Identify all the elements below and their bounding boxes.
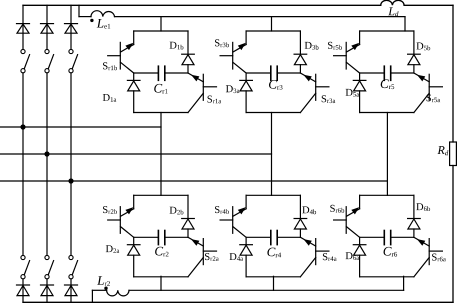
wire cell 1 top rail — [134, 30, 188, 32]
wire cell 4 top rail to diode D_4b — [299, 195, 301, 218]
transistor S_r5b base lead — [334, 55, 347, 57]
diode D_6a cathode bar — [353, 244, 366, 246]
wire diode D_4b to node — [299, 229, 301, 237]
wire bottom return rise into cell 6 — [403, 276, 405, 290]
switch Sb bottom circle — [45, 255, 49, 259]
diode input rectifier top phase c cathode bar — [65, 23, 78, 25]
wire cell 3 top rail to diode D_3b — [299, 31, 301, 54]
transistor S_r6b bar — [345, 207, 347, 234]
transistor S_r3b corner drop — [245, 31, 247, 45]
wire bottom return left stub — [92, 289, 106, 291]
wire diode D_1b to node — [187, 65, 189, 73]
transistor S_r6b base lead — [334, 219, 347, 221]
transistor S_r6a base lead — [429, 250, 442, 252]
capacitor C_r1 left plate — [157, 66, 159, 80]
transistor S_r3b arrow — [238, 43, 246, 50]
label D_1b — [170, 42, 184, 50]
label S_r2b — [103, 206, 117, 214]
transistor S_r1b bar — [119, 42, 121, 69]
wire stub top of cell 3 — [271, 17, 273, 31]
wire capacitor right plate to cell 2 node — [165, 236, 188, 238]
label D_5b — [416, 43, 430, 51]
label S_r6b — [330, 205, 344, 213]
transistor S_r1b emitter diagonal — [121, 62, 134, 73]
wire capacitor right plate to cell 1 node — [165, 72, 188, 74]
label S_r1b — [103, 62, 117, 70]
wire cell 5 node to diode D_5a — [359, 73, 361, 80]
wire phase b upper segment — [46, 5, 48, 49]
switch Sc bottom circle — [69, 255, 73, 259]
label D_1a — [103, 94, 117, 102]
transistor S_r1b collector diagonal — [121, 45, 134, 53]
transistor S_r3b bar — [232, 42, 234, 69]
wire cell 1 top rail to diode D_1b — [187, 31, 189, 54]
wire diode D_3b to node — [299, 65, 301, 73]
capacitor C_r2 right plate — [164, 231, 166, 245]
wire cell 1 bottom rail — [134, 112, 188, 114]
wire stub bottom of cell 4 — [273, 276, 275, 290]
inductor Lr2 — [107, 290, 129, 296]
transistor S_r3a collector diagonal — [300, 73, 315, 82]
wire diode D_2a to bottom rail — [133, 255, 135, 277]
resistor Rd — [450, 142, 457, 166]
wire cell 1 node to capacitor left plate — [134, 72, 159, 74]
capacitor C_r1 right plate — [164, 66, 166, 80]
wire diode D_2b to node — [187, 229, 189, 237]
capacitor C_r2 left plate — [157, 231, 159, 245]
transistor S_r2a base lead — [203, 250, 216, 252]
transistor S_r4a arrow — [303, 239, 311, 246]
transistor S_r5b bar — [345, 42, 347, 69]
transistor S_r1b base lead — [108, 55, 121, 57]
label D_4b — [302, 206, 316, 214]
diode D_4a cathode bar — [240, 244, 253, 246]
diode D_1b cathode bar — [182, 53, 195, 55]
transistor S_r3b emitter diagonal — [233, 62, 246, 73]
diode D_5a cathode bar — [353, 79, 366, 81]
wire link cell 3 to cell 4 (phase b node) — [271, 113, 273, 196]
transistor S_r4b emitter diagonal — [233, 227, 246, 238]
wire link cell 1 to cell 2 (phase a node) — [160, 113, 162, 196]
diode input rectifier top phase b cathode bar — [41, 23, 54, 25]
label C_r3 — [269, 80, 283, 90]
capacitor C_r4 right plate — [276, 231, 278, 245]
wire capacitor right plate to cell 5 node — [391, 72, 414, 74]
wire bus line phase a horizontal — [0, 126, 161, 128]
diode D_3b cathode bar — [294, 53, 307, 55]
diode input rectifier top phase b — [41, 24, 53, 33]
wire bus line phase b horizontal — [0, 153, 272, 155]
label S_r4a — [323, 253, 337, 261]
diode D_4a — [240, 245, 252, 255]
diode input rectifier bottom phase a cathode bar — [17, 284, 30, 286]
transistor S_r6a collector diagonal — [414, 237, 429, 246]
transistor S_r4b corner drop — [245, 195, 247, 209]
diode D_4b cathode bar — [294, 218, 307, 220]
wire cell 2 bottom rail — [134, 276, 188, 278]
transistor S_r4b arrow — [238, 207, 246, 214]
transistor S_r6a bar — [428, 239, 430, 265]
wire cell 4 node to diode D_4a — [245, 237, 247, 244]
diode D_1a cathode bar — [127, 79, 140, 81]
transistor S_r4a emitter diagonal — [300, 258, 315, 277]
label S_r2a — [205, 253, 219, 261]
transistor S_r3a base lead — [316, 86, 329, 88]
transistor S_r5b corner drop — [359, 31, 361, 45]
wire cell 4 top rail — [246, 194, 300, 196]
label D_6a — [346, 252, 360, 260]
switch Sc bottom blade — [72, 261, 77, 275]
wire cell 1 node to diode D_1a — [133, 73, 135, 80]
transistor S_r6b emitter diagonal — [346, 227, 359, 238]
transistor S_r1b arrow — [125, 43, 133, 50]
wire diode D_5a to bottom rail — [359, 91, 361, 113]
diode D_1a — [128, 81, 140, 91]
polarity dot Le1 — [90, 19, 93, 22]
switch Sb top blade — [48, 55, 53, 69]
wire cell 3 top rail — [246, 30, 300, 32]
diode input rectifier bottom phase a — [17, 286, 29, 296]
label C_r4 — [267, 248, 281, 258]
label C_r6 — [384, 247, 398, 257]
transistor S_r2b arrow — [125, 207, 133, 214]
switch Sc bottom lower circle — [69, 275, 73, 279]
transistor S_r2b corner drop — [133, 195, 135, 209]
wire cell 5 top rail — [360, 30, 414, 32]
wire diode D_6b to node — [413, 229, 415, 237]
transistor S_r2b emitter diagonal — [121, 227, 134, 238]
transistor S_r3b base lead — [220, 55, 233, 57]
wire diode D_3a to bottom rail — [245, 91, 247, 113]
wire diode D_5b to node — [413, 65, 415, 73]
transistor S_r4b collector diagonal — [233, 209, 246, 217]
wire bottom return line — [129, 289, 404, 291]
wire cell 5 node to capacitor left plate — [360, 72, 385, 74]
label S_r3b — [215, 39, 229, 47]
transistor S_r6b collector diagonal — [346, 209, 359, 217]
wire phase c lower segment — [70, 279, 72, 302]
label S_r5a — [427, 94, 441, 102]
transistor S_r2b bar — [119, 207, 121, 234]
diode D_6b cathode bar — [408, 218, 421, 220]
wire auxiliary top bus — [115, 16, 406, 18]
transistor S_r5a collector diagonal — [414, 73, 429, 82]
switch Sb top circle — [45, 49, 49, 53]
transistor S_r5a base lead — [429, 86, 442, 88]
switch Sb bottom lower circle — [45, 275, 49, 279]
wire cell 6 node to diode D_6a — [359, 237, 361, 244]
switch Sc top circle — [69, 49, 73, 53]
diode input rectifier bottom phase c cathode bar — [65, 284, 78, 286]
wire phase c upper segment — [70, 5, 72, 49]
wire cell 6 node to capacitor left plate — [360, 236, 385, 238]
diode D_2b — [182, 219, 194, 229]
wire capacitor right plate to cell 3 node — [277, 72, 300, 74]
wire cell 6 bottom rail — [360, 276, 414, 278]
wire bus line phase c horizontal — [0, 180, 387, 182]
wire diode D_6a to bottom rail — [359, 255, 361, 277]
diode D_3a cathode bar — [240, 79, 253, 81]
node junction phase b bus — [44, 151, 49, 156]
diode D_3b — [294, 55, 306, 65]
transistor S_r2b base lead — [108, 219, 121, 221]
wire cell 2 top rail to diode D_2b — [187, 195, 189, 218]
wire tap from top bus to auxiliary bus — [78, 5, 80, 16]
label D_3a — [226, 85, 240, 93]
inductor Ld — [381, 0, 404, 5]
diode D_5b — [408, 55, 420, 65]
capacitor C_r3 left plate — [270, 66, 272, 80]
label D_3b — [305, 42, 319, 50]
diode D_6b — [408, 219, 420, 229]
transistor S_r2a collector diagonal — [188, 237, 203, 246]
transistor S_r2a arrow — [191, 239, 199, 246]
label S_r4b — [215, 206, 229, 214]
diode D_5b cathode bar — [408, 53, 421, 55]
diode D_6a — [354, 245, 366, 255]
switch Sc top lower circle — [69, 69, 73, 73]
diode D_5a — [354, 81, 366, 91]
wire bottom return drop — [91, 290, 93, 302]
diode input rectifier bottom phase b cathode bar — [41, 284, 54, 286]
capacitor C_r5 right plate — [390, 66, 392, 80]
wire capacitor right plate to cell 4 node — [277, 236, 300, 238]
transistor S_r3a emitter diagonal — [300, 93, 315, 112]
wire phase a lower segment — [22, 279, 24, 302]
diode D_2a cathode bar — [127, 244, 140, 246]
wire cell 5 top rail to diode D_5b — [413, 31, 415, 54]
wire top positive bus right section — [404, 4, 453, 6]
diode D_2b cathode bar — [182, 218, 195, 220]
transistor S_r1a collector diagonal — [188, 73, 203, 82]
capacitor C_r5 left plate — [383, 66, 385, 80]
wire phase a upper segment — [22, 5, 24, 49]
wire cell 3 node to capacitor left plate — [246, 72, 271, 74]
label C_r5 — [381, 79, 395, 89]
wire cell 2 top rail — [134, 194, 188, 196]
wire cell 3 bottom rail — [246, 112, 300, 114]
transistor S_r1b corner drop — [133, 31, 135, 45]
wire capacitor right plate to cell 6 node — [391, 236, 414, 238]
diode D_3a — [240, 81, 252, 91]
wire stub bottom of cell 2 — [160, 276, 162, 290]
wire top positive bus left section — [23, 4, 381, 6]
diode input rectifier bottom phase c — [65, 286, 77, 296]
switch Sa top circle — [21, 49, 25, 53]
inductor Le1 — [91, 11, 115, 17]
diode input rectifier top phase c — [65, 24, 77, 33]
transistor S_r5b emitter diagonal — [346, 62, 359, 73]
capacitor C_r6 left plate — [383, 231, 385, 245]
transistor S_r6a emitter diagonal — [414, 258, 429, 277]
label Lr2 — [97, 276, 110, 286]
transistor S_r6b arrow — [351, 207, 359, 214]
wire phase b middle segment — [46, 73, 48, 256]
capacitor C_r4 left plate — [270, 231, 272, 245]
label D_2b — [170, 207, 184, 215]
switch Sa bottom blade — [24, 261, 29, 275]
switch Sc top blade — [72, 55, 77, 69]
transistor S_r5b arrow — [351, 43, 359, 50]
diode D_2a — [128, 245, 140, 255]
wire auxiliary bus bend into cell 5 — [404, 17, 406, 31]
switch Sa top blade — [24, 55, 29, 69]
transistor S_r1a base lead — [203, 86, 216, 88]
wire phase c middle segment — [70, 73, 72, 256]
transistor S_r2a emitter diagonal — [188, 258, 203, 277]
label C_r1 — [154, 84, 167, 94]
label S_r3a — [322, 95, 336, 103]
transistor S_r4a collector diagonal — [300, 237, 315, 246]
wire right vertical bus upper segment — [452, 5, 454, 142]
wire cell 3 node to diode D_3a — [245, 73, 247, 80]
wire cell 4 node to capacitor left plate — [246, 236, 271, 238]
label Le1 — [97, 19, 111, 29]
wire link cell 5 to cell 6 (phase c node) — [386, 113, 388, 196]
switch Sb bottom blade — [48, 261, 53, 275]
wire cell 2 node to capacitor left plate — [134, 236, 159, 238]
switch Sb top lower circle — [45, 69, 49, 73]
transistor S_r3b collector diagonal — [233, 45, 246, 53]
label S_r5b — [328, 42, 342, 50]
transistor S_r2b collector diagonal — [121, 209, 134, 217]
transistor S_r4b base lead — [220, 219, 233, 221]
transistor S_r5a emitter diagonal — [414, 93, 429, 112]
transistor S_r6b corner drop — [359, 195, 361, 209]
diode D_4b — [294, 219, 306, 229]
switch Sa bottom circle — [21, 255, 25, 259]
wire phase a middle segment — [22, 73, 24, 256]
label D_6b — [416, 203, 430, 211]
diode D_1b — [182, 55, 194, 65]
wire diode D_4a to bottom rail — [245, 255, 247, 277]
wire right vertical bus lower segment — [452, 166, 454, 303]
wire cell 2 node to diode D_2a — [133, 237, 135, 244]
transistor S_r2a bar — [202, 239, 204, 265]
wire stub top of cell 1 — [160, 17, 162, 31]
transistor S_r3a arrow — [303, 75, 311, 82]
label Rd — [437, 146, 448, 155]
wire auxiliary top bus left stub — [79, 16, 91, 18]
wire phase b lower segment — [46, 279, 48, 302]
node junction phase a bus — [20, 124, 25, 129]
capacitor C_r3 right plate — [276, 66, 278, 80]
switch Sa top lower circle — [21, 69, 25, 73]
polarity dot Lr2 — [104, 287, 107, 290]
wire cell 6 top rail — [360, 194, 414, 196]
transistor S_r3a bar — [315, 74, 317, 100]
wire bottom negative bus — [23, 301, 453, 303]
transistor S_r4a bar — [315, 239, 317, 265]
transistor S_r6a arrow — [417, 239, 425, 246]
transistor S_r1a arrow — [191, 75, 199, 82]
label S_r1a — [208, 96, 222, 104]
label D_4a — [230, 253, 244, 261]
label D_2a — [106, 245, 120, 253]
label Ld — [388, 7, 398, 16]
transistor S_r5a arrow — [417, 75, 425, 82]
label S_r6a — [432, 254, 446, 262]
diode input rectifier bottom phase b — [41, 286, 53, 296]
wire cell 5 bottom rail — [360, 112, 414, 114]
switch Sa bottom lower circle — [21, 275, 25, 279]
diode input rectifier top phase a cathode bar — [17, 23, 30, 25]
wire cell 4 bottom rail — [246, 276, 300, 278]
wire cell 6 top rail to diode D_6b — [413, 195, 415, 218]
transistor S_r1a bar — [202, 74, 204, 100]
capacitor C_r6 right plate — [390, 231, 392, 245]
transistor S_r4a base lead — [316, 250, 329, 252]
wire diode D_1a to bottom rail — [133, 91, 135, 113]
label C_r2 — [155, 247, 168, 257]
transistor S_r4b bar — [232, 207, 234, 234]
transistor S_r5b collector diagonal — [346, 45, 359, 53]
node junction phase c bus — [68, 178, 73, 183]
transistor S_r1a emitter diagonal — [188, 93, 203, 112]
transistor S_r5a bar — [428, 74, 430, 100]
diode input rectifier top phase a — [17, 24, 29, 33]
label D_5a — [346, 89, 360, 97]
